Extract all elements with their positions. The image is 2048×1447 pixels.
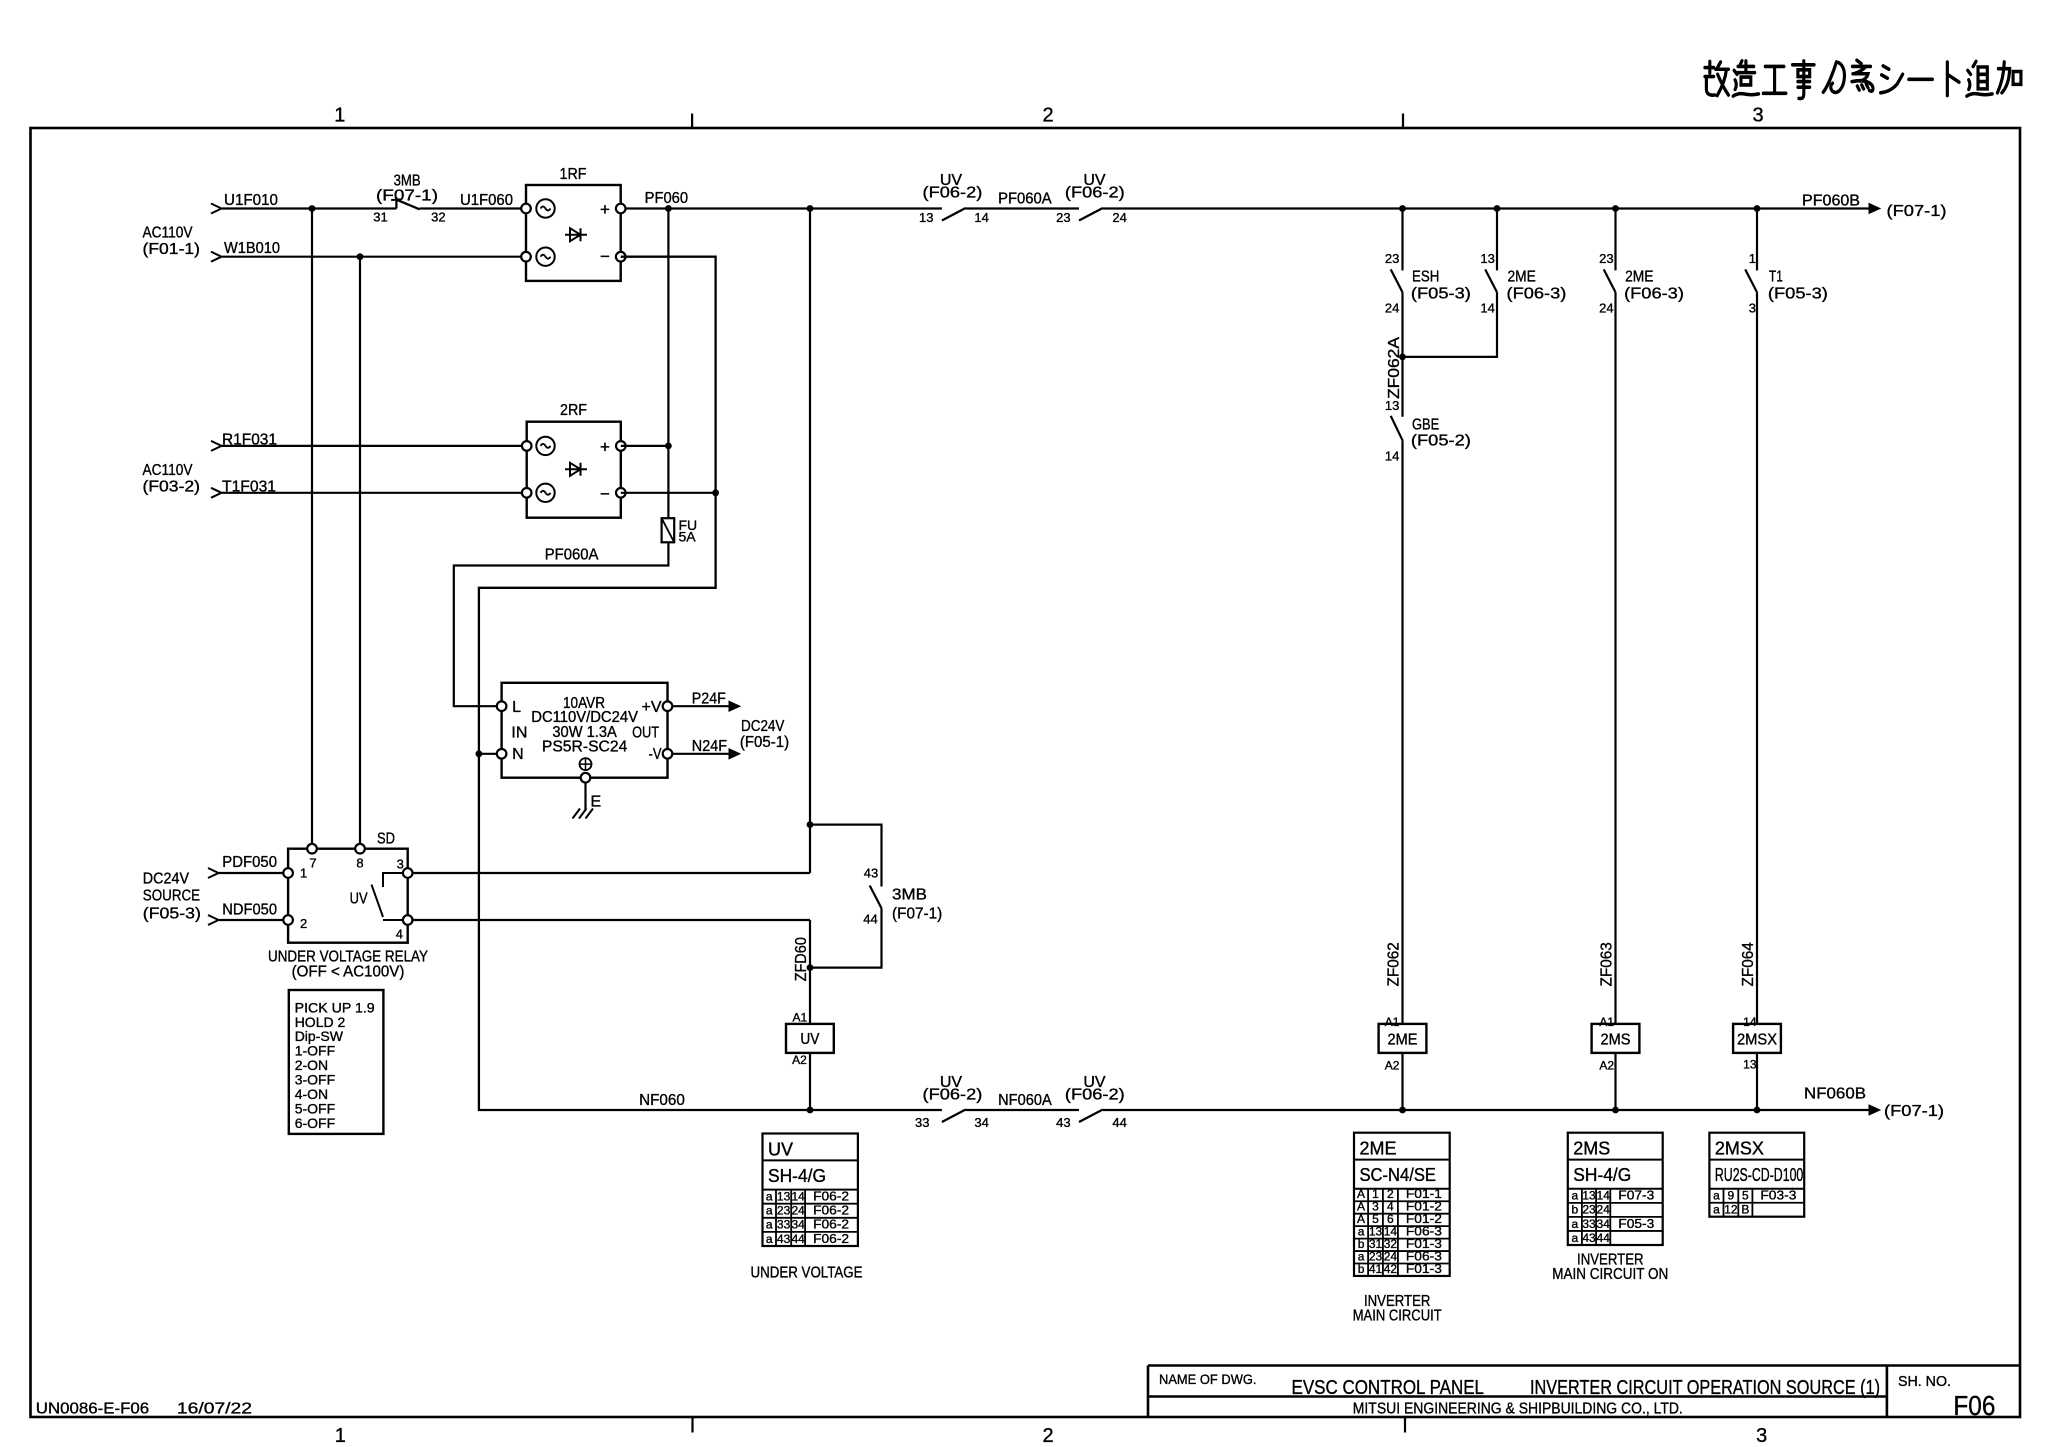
svg-text:SOURCE: SOURCE [143,888,200,905]
svg-text:NF060: NF060 [639,1092,685,1109]
svg-text:a: a [766,1190,773,1204]
svg-text:(F07-1): (F07-1) [376,188,438,205]
svg-text:MITSUI ENGINEERING & SHIPBUILD: MITSUI ENGINEERING & SHIPBUILDING CO., L… [1353,1401,1683,1418]
svg-text:a: a [1713,1189,1720,1203]
wire 2RF+ to PF060 branch [621,445,669,447]
wire 2ME 14 to ZF062A junction [1403,292,1498,357]
AVR earth symbol circled [580,758,592,770]
input arrow R1F031 [211,441,222,451]
wire PF060 to 2ME contact [1496,209,1498,271]
relay pin 7 [307,844,317,854]
relay contact UV 43-44 [1079,1110,1103,1123]
cross-ref table 2MSX RU2S-CD-D100 [1709,1133,1804,1217]
svg-text:34: 34 [974,1115,988,1130]
svg-text:3: 3 [1756,1425,1767,1447]
svg-text:2MS: 2MS [1601,1032,1631,1049]
bottom border tick 1-2 [691,1417,693,1433]
svg-text:(F06-2): (F06-2) [923,1086,983,1103]
AVR terminal N [497,749,507,759]
svg-text:24: 24 [1385,301,1399,316]
under voltage relay UV [288,849,408,943]
wire PF060 to 2ME 23 contact [1614,209,1616,271]
2RF AC symbol bottom [536,484,554,502]
Japanese annotation 改造工事の為シート追加 [1705,61,1729,95]
svg-text:ZFD60: ZFD60 [793,937,810,981]
title block [1148,1364,2020,1367]
relay contact UV 13-14 [942,208,966,221]
svg-text:2ME: 2ME [1625,269,1653,286]
svg-text:2: 2 [1042,1425,1053,1447]
svg-text:F06-2: F06-2 [813,1203,849,1218]
svg-text:MAIN CIRCUIT ON: MAIN CIRCUIT ON [1552,1266,1668,1283]
svg-text:8: 8 [356,856,363,871]
svg-text:13: 13 [1480,251,1494,266]
svg-text:a: a [766,1232,773,1246]
svg-text:2MSX: 2MSX [1737,1032,1777,1049]
svg-text:14: 14 [1743,1015,1757,1029]
wire PF060A [966,207,1079,209]
wire PF060A fuse to AVR L [454,542,669,706]
svg-text:24: 24 [1112,210,1126,225]
svg-text:23: 23 [1385,251,1399,266]
svg-text:14: 14 [1385,449,1399,464]
svg-text:(F05-2): (F05-2) [1411,433,1471,450]
svg-text:34: 34 [791,1218,805,1232]
wire R1F031 [222,445,527,447]
relay contact 2ME 13-14 [1485,269,1497,292]
svg-text:14: 14 [791,1190,805,1204]
wire U1F060 [420,207,526,209]
svg-text:23: 23 [777,1204,791,1218]
wire NDF050 [219,919,283,921]
svg-text:13: 13 [1385,398,1399,413]
1RF terminal - [616,252,626,262]
svg-text:33: 33 [777,1218,791,1232]
relay contact T1 1-3 [1745,269,1757,292]
wire N junction [476,750,483,757]
svg-text:(F07-1): (F07-1) [892,906,942,923]
relay coil UV [786,1024,834,1053]
svg-text:34: 34 [1597,1217,1611,1231]
wire PF060B [1103,207,1869,209]
arrowhead PF060B [1869,204,1880,214]
svg-text:MAIN CIRCUIT: MAIN CIRCUIT [1353,1308,1442,1325]
svg-text:AC110V: AC110V [143,225,193,242]
svg-text:+V: +V [642,699,662,716]
svg-text:33: 33 [915,1115,929,1130]
svg-text:AC110V: AC110V [143,462,193,479]
svg-text:14: 14 [1480,301,1494,316]
junction PF060 to fuse branch [665,205,672,212]
svg-text:32: 32 [431,210,445,225]
svg-text:A1: A1 [1599,1015,1614,1029]
svg-text:UV: UV [768,1140,793,1160]
svg-text:44: 44 [1112,1115,1126,1130]
svg-text:1RF: 1RF [560,166,587,183]
svg-text:U1F060: U1F060 [460,192,513,209]
svg-text:2ME: 2ME [1360,1139,1397,1159]
bottom border tick 2-3 [1404,1417,1406,1433]
svg-text:3: 3 [1749,301,1756,316]
rectifier 2RF [527,422,621,518]
svg-text:B: B [1741,1203,1749,1217]
svg-text:(F06-2): (F06-2) [1065,185,1125,202]
wire relay pin4 to coil [412,919,810,921]
wire branch up to PF060 [809,209,811,874]
wire PDF050 [219,872,283,874]
svg-text:5: 5 [1742,1189,1749,1203]
svg-text:PF060B: PF060B [1802,193,1860,210]
AVR terminal E [581,773,591,783]
svg-text:UN0086-E-F06: UN0086-E-F06 [36,1401,149,1418]
svg-text:44: 44 [791,1232,805,1246]
2RF diode symbol [565,463,587,476]
relay coil 2MS [1592,1024,1640,1053]
svg-text:6-OFF: 6-OFF [295,1115,335,1131]
svg-text:2ME: 2ME [1388,1032,1418,1049]
svg-text:1: 1 [334,105,345,127]
relay coil 2MSX [1733,1024,1781,1053]
1RF terminal AC1 [521,204,531,214]
svg-text:24: 24 [1597,1203,1611,1217]
svg-text:(F06-2): (F06-2) [923,185,983,202]
svg-text:F06: F06 [1953,1390,1995,1421]
svg-text:E: E [591,794,602,811]
relay pin 8 [355,844,365,854]
svg-text:44: 44 [1597,1231,1611,1245]
svg-text:UV: UV [350,891,368,908]
wire W1B010 to relay pin 8 [359,257,361,849]
svg-text:4: 4 [396,927,403,942]
relay coil 2ME [1379,1024,1427,1053]
svg-text:ESH: ESH [1412,269,1439,286]
svg-text:(F06-3): (F06-3) [1624,286,1684,303]
relay contact ESH 23-24 [1391,269,1403,292]
wire 2MS coil to NF060 [1614,1053,1616,1110]
svg-text:43: 43 [1056,1115,1070,1130]
svg-text:(F06-3): (F06-3) [1507,286,1567,303]
svg-text:SC-N4/SE: SC-N4/SE [1360,1165,1437,1185]
svg-text:ZF062A: ZF062A [1386,337,1403,399]
svg-text:F07-3: F07-3 [1618,1188,1654,1203]
svg-text:ZF063: ZF063 [1599,942,1616,986]
svg-text:NF060A: NF060A [998,1092,1052,1109]
svg-text:F01-3: F01-3 [1406,1261,1442,1276]
wire U1F010 [222,207,396,209]
relay pin 2 [283,915,293,925]
svg-text:1: 1 [300,866,307,881]
svg-text:EVSC CONTROL PANEL: EVSC CONTROL PANEL [1292,1377,1485,1399]
svg-text:14: 14 [1597,1189,1611,1203]
junction PF060 to 2ME 13 branch [1494,205,1501,212]
svg-text:3: 3 [1752,105,1763,127]
svg-text:(F03-2): (F03-2) [143,479,201,496]
output arrow N24F [672,753,730,755]
wire ESH to GBE [1401,292,1403,417]
svg-text:23: 23 [1582,1203,1596,1217]
svg-text:13: 13 [1743,1058,1757,1072]
ground [584,783,586,810]
top border tick 1-2 [691,114,693,129]
svg-text:A2: A2 [792,1053,807,1067]
svg-text:F05-3: F05-3 [1618,1216,1654,1231]
svg-text:PF060: PF060 [645,190,689,207]
wire to 3MB contact 43 [810,825,882,887]
svg-text:(F05-3): (F05-3) [1411,286,1471,303]
breaker aux contact 3MB 43-44 [870,886,882,909]
2RF terminal AC1 [522,441,532,451]
wire relay pin3 to branch [412,872,810,874]
svg-text:(F05-1): (F05-1) [740,734,789,751]
junction 3MB return [807,964,814,971]
cross-ref table UV SH-4/G [763,1134,858,1247]
svg-text:NAME OF DWG.: NAME OF DWG. [1159,1371,1257,1387]
svg-text:24: 24 [1599,301,1613,316]
svg-text:PF060A: PF060A [545,547,599,564]
svg-text:12: 12 [1724,1203,1738,1217]
svg-text:42: 42 [1384,1262,1398,1276]
svg-text:13: 13 [919,210,933,225]
svg-text:ZF064: ZF064 [1740,942,1757,986]
junction 2MS coil on NF060 [1612,1107,1619,1114]
junction 2RF- on negative branch [712,489,719,496]
wire UV coil A2 to NF060 [809,1053,811,1110]
relay pin 4 [403,915,413,925]
junction ZF062A [1399,354,1406,361]
svg-text:a: a [1572,1189,1579,1203]
1RF terminal AC2 [521,252,531,262]
junction to 3MB 43 branch [807,821,814,828]
junction PF060 to ZF062 branch [1399,205,1406,212]
rectifier 1RF [526,185,621,281]
junction 2ME coil on NF060 [1399,1107,1406,1114]
breaker contact 3MB 31-32 [395,197,397,209]
AVR terminal -V [663,749,673,759]
top border tick 2-3 [1402,114,1404,129]
junction W1B010 to relay pin 8 [357,253,364,260]
wire to AVR N [479,753,497,755]
svg-text:16/07/22: 16/07/22 [177,1401,252,1418]
wire 2RF- to negative branch [621,492,716,494]
wire 2MSX coil to NF060 [1756,1053,1758,1110]
svg-text:SD: SD [377,831,395,848]
1RF AC symbol bottom [536,248,554,266]
svg-text:ZF062: ZF062 [1386,942,1403,986]
svg-text:UV: UV [800,1031,819,1048]
svg-text:(F07-1): (F07-1) [1884,1103,1944,1120]
relay internal UV contact [383,873,403,887]
1RF AC symbol top [536,199,554,217]
svg-text:(F05-3): (F05-3) [143,906,201,923]
1RF diode symbol [565,228,587,241]
AVR terminal L [497,701,507,711]
svg-text:+: + [600,200,610,219]
wire NF060A [966,1109,1079,1111]
svg-text:(F05-3): (F05-3) [1768,286,1828,303]
junction UV coil on NF060 [807,1107,814,1114]
relay contact GBE 13-14 [1391,416,1403,441]
wire 2ME coil to NF060 [1401,1053,1403,1110]
svg-text:5A: 5A [679,529,697,545]
svg-text:1: 1 [1749,251,1756,266]
fuse FU 5A [662,518,675,542]
wire ZF062 to 2ME coil [1401,440,1403,1024]
svg-text:F06-2: F06-2 [813,1231,849,1246]
svg-text:RU2S-CD-D100: RU2S-CD-D100 [1715,1165,1803,1185]
relay contact UV 23-24 [1079,208,1103,221]
wire PF060 [621,207,942,209]
input arrow T1F031 [211,488,222,498]
arrowhead NF060B [1869,1105,1880,1115]
input arrow NDF050 [208,915,219,925]
cross-ref table 2ME SC-N4/SE [1354,1133,1450,1276]
svg-text:43: 43 [1582,1231,1596,1245]
wire NF060B [1103,1109,1869,1111]
svg-text:U1F010: U1F010 [224,192,278,209]
svg-text:2MS: 2MS [1573,1139,1610,1159]
relay contact UV 33-34 [942,1110,966,1123]
svg-text:−: − [600,247,610,266]
svg-text:DC24V: DC24V [143,871,189,888]
svg-text:A1: A1 [1385,1015,1400,1029]
input arrow PDF050 [208,868,219,878]
svg-text:23: 23 [1056,210,1070,225]
wire pin4 down to UV coil [809,920,811,1024]
svg-text:14: 14 [974,210,988,225]
svg-text:23: 23 [1599,251,1613,266]
svg-text:41: 41 [1369,1262,1383,1276]
svg-text:PS5R-SC24: PS5R-SC24 [542,739,628,756]
relay pin 3 [403,868,413,878]
svg-text:T1: T1 [1769,269,1783,286]
relay pin 1 [283,868,293,878]
svg-text:P24F: P24F [692,691,726,708]
svg-text:(F07-1): (F07-1) [1887,203,1947,220]
svg-text:SH-4/G: SH-4/G [1573,1165,1631,1185]
junction 2RF+ on fuse branch [665,443,672,450]
svg-text:13: 13 [777,1190,791,1204]
svg-text:W1B010: W1B010 [224,240,280,257]
output arrow P24F [672,705,730,707]
1RF terminal + [616,204,626,214]
svg-text:3MB: 3MB [892,887,927,904]
svg-text:DC24V: DC24V [741,718,785,735]
svg-text:a: a [766,1218,773,1232]
svg-text:UNDER VOLTAGE: UNDER VOLTAGE [751,1265,863,1282]
wire W1B010 [222,256,526,258]
svg-text:-V: -V [649,746,662,763]
junction on U1F010 to relay pin 7 [309,205,316,212]
2RF terminal + [616,441,626,451]
svg-text:2ME: 2ME [1508,269,1536,286]
svg-text:IN: IN [511,725,527,742]
svg-text:A2: A2 [1599,1059,1614,1073]
svg-text:L: L [512,699,521,716]
wire PF060 to ESH contact [1401,209,1403,271]
svg-text:NF060B: NF060B [1804,1086,1866,1103]
svg-text:13: 13 [1582,1189,1596,1203]
cross-ref table 2MS SH-4/G [1568,1133,1663,1245]
svg-text:1: 1 [335,1425,346,1447]
svg-text:b: b [1358,1262,1365,1276]
svg-text:a: a [766,1204,773,1218]
svg-text:A1: A1 [793,1010,808,1024]
2RF terminal AC2 [522,488,532,498]
svg-text:F06-2: F06-2 [813,1217,849,1232]
svg-text:2: 2 [300,916,307,931]
relay contact blade [372,885,384,917]
svg-text:N24F: N24F [692,738,727,755]
wire 3MB 44 return [810,908,882,967]
svg-text:GBE: GBE [1412,417,1439,434]
svg-text:A2: A2 [1385,1059,1400,1073]
AVR terminal +V [663,701,673,711]
wire ZF063 to 2MS coil [1614,292,1616,1024]
svg-text:a: a [1713,1203,1720,1217]
svg-text:NDF050: NDF050 [222,902,277,919]
wire T1F031 [222,492,527,494]
2RF terminal - [616,488,626,498]
svg-text:INVERTER CIRCUIT OPERATION SOU: INVERTER CIRCUIT OPERATION SOURCE (1) [1530,1377,1880,1399]
wire PF060 to T1 contact [1756,209,1758,271]
svg-text:a: a [1572,1217,1579,1231]
wire PF060 vertical to fuse [667,209,669,519]
svg-text:T1F031: T1F031 [222,479,276,496]
relay contact 2ME 23-24 [1604,269,1616,292]
svg-text:2RF: 2RF [560,402,587,419]
svg-text:(F06-2): (F06-2) [1065,1086,1125,1103]
wire ZF064 to 2MSX coil [1756,292,1758,1024]
svg-text:PF060A: PF060A [998,191,1052,208]
junction PF060 to UV coil branch [807,205,814,212]
svg-text:PDF050: PDF050 [222,854,277,871]
svg-text:43: 43 [777,1232,791,1246]
svg-text:N: N [512,746,524,763]
dip switch settings box [289,990,384,1134]
svg-text:3: 3 [397,857,404,872]
svg-text:b: b [1572,1203,1579,1217]
svg-text:−: − [600,484,610,503]
svg-text:(F01-1): (F01-1) [143,241,201,258]
svg-text:9: 9 [1728,1189,1735,1203]
svg-text:33: 33 [1582,1217,1596,1231]
svg-text:(OFF < AC100V): (OFF < AC100V) [292,964,405,981]
svg-text:SH-4/G: SH-4/G [768,1166,826,1186]
svg-text:2: 2 [1042,105,1053,127]
relay pin4 stub [383,919,403,921]
svg-text:SH. NO.: SH. NO. [1898,1373,1951,1390]
svg-text:a: a [1572,1231,1579,1245]
input arrow W1B010 [211,252,222,262]
svg-text:24: 24 [791,1204,805,1218]
junction PF060 to ZF064 branch [1754,205,1761,212]
wire U1F010 to relay pin 7 [311,209,313,849]
svg-text:+: + [600,437,610,456]
svg-text:OUT: OUT [632,725,659,742]
svg-text:7: 7 [309,856,316,871]
2RF AC symbol top [536,437,554,455]
svg-text:F06-2: F06-2 [813,1189,849,1204]
junction 2MSX coil on NF060 [1754,1107,1761,1114]
svg-text:R1F031: R1F031 [222,432,277,449]
svg-text:F03-3: F03-3 [1760,1188,1796,1203]
svg-text:44: 44 [863,912,877,927]
wire negative rail 1RF- to NF060 [479,257,942,1110]
input arrow U1F010 [211,204,222,214]
svg-text:31: 31 [373,210,387,225]
power supply unit 10AVR PS5R-SC24 [502,683,668,778]
svg-text:43: 43 [864,866,878,881]
